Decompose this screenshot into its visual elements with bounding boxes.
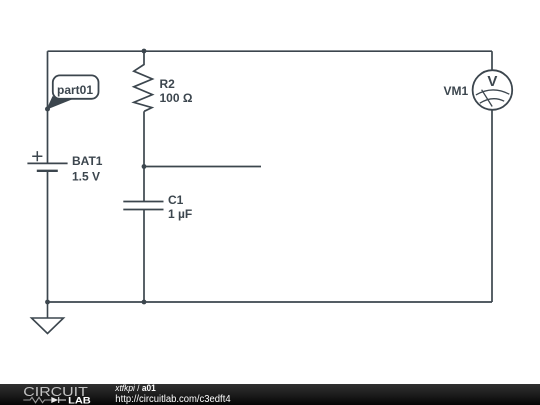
capacitor C1 [123,202,163,210]
svg-text:1.5 V: 1.5 V [72,170,100,184]
wire left vertical lower (battery bottom lead) [47,171,49,302]
wire bottom horizontal [48,301,493,303]
node dot part01 [45,107,50,112]
resistor R2 [134,51,153,111]
svg-text:C1: C1 [168,193,184,207]
ground [32,302,64,334]
junction dot bottom C1 [142,300,147,305]
logo squiggle resistor [23,397,51,402]
battery BAT1 [27,151,67,171]
voltmeter VM1 [473,70,513,110]
svg-text:http://circuitlab.com/c3edft4: http://circuitlab.com/c3edft4 [115,394,231,405]
svg-text:1 µF: 1 µF [168,207,192,221]
node label part01 callout [47,75,98,108]
wire top horizontal [48,50,493,52]
svg-text:xtfkpi / a01: xtfkpi / a01 [114,383,156,394]
junction dot mid R2/C1 [142,164,147,169]
svg-text:100 Ω: 100 Ω [160,91,193,105]
wire R2 to C1 vertical [143,111,145,201]
svg-text:VM1: VM1 [444,84,469,98]
svg-text:BAT1: BAT1 [72,154,103,168]
wire middle horizontal stub [144,166,261,168]
wire right vertical upper (voltmeter top lead) [491,51,493,70]
logo diode [51,397,58,403]
wire right vertical lower (voltmeter bottom lead) [491,110,493,302]
wire C1 bottom lead [143,210,145,303]
svg-text:V: V [487,73,497,90]
svg-text:part01: part01 [57,83,93,97]
junction dot bottom left [45,300,50,305]
wire left vertical upper (battery top lead) [47,51,49,163]
junction dot top R2 [142,49,147,54]
svg-text:R2: R2 [160,77,176,91]
svg-text:LAB: LAB [68,396,91,405]
